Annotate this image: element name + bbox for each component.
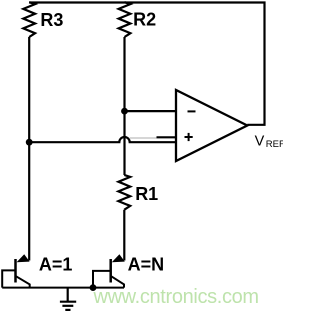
svg-text:A=N: A=N xyxy=(128,255,165,275)
svg-text:R2: R2 xyxy=(133,10,156,30)
svg-text:R1: R1 xyxy=(135,184,158,204)
svg-text:A=1: A=1 xyxy=(39,254,73,274)
svg-text:VREF: VREF xyxy=(255,133,283,150)
svg-text:R3: R3 xyxy=(40,10,63,30)
svg-text:www.cntronics.com: www.cntronics.com xyxy=(93,286,259,308)
